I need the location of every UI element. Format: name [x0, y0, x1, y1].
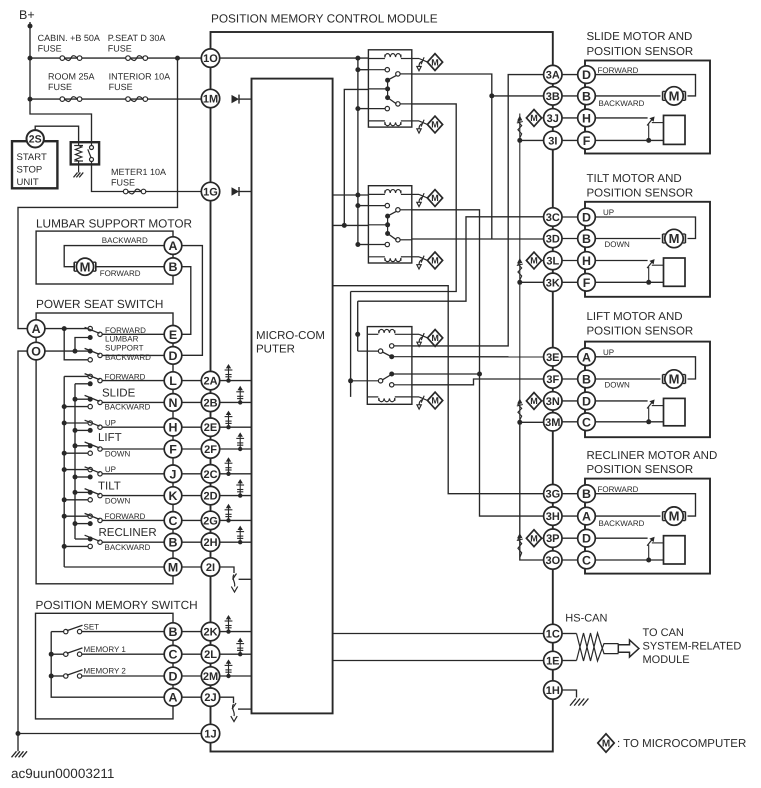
svg-text:F: F [583, 134, 591, 148]
svg-text:A: A [582, 350, 591, 364]
svg-text:3F: 3F [546, 374, 559, 386]
svg-text:2H: 2H [203, 537, 217, 549]
svg-text:RECLINER: RECLINER [99, 527, 157, 539]
svg-text:MEMORY 2: MEMORY 2 [84, 667, 127, 676]
svg-text:3M: 3M [545, 417, 560, 429]
svg-text:D: D [169, 669, 178, 683]
svg-text:A: A [582, 510, 591, 524]
svg-text:POSITION MEMORY CONTROL MODULE: POSITION MEMORY CONTROL MODULE [211, 12, 438, 26]
svg-text:BACKWARD: BACKWARD [105, 543, 151, 552]
svg-text:BACKWARD: BACKWARD [599, 519, 645, 528]
svg-text:FUSE: FUSE [48, 82, 72, 92]
svg-text:SYSTEM-RELATED: SYSTEM-RELATED [643, 641, 742, 653]
svg-text:M: M [669, 372, 680, 387]
svg-text:O: O [31, 345, 41, 359]
svg-text:POSITION SENSOR: POSITION SENSOR [587, 326, 694, 338]
svg-text:3E: 3E [546, 352, 559, 364]
svg-text:2S: 2S [29, 134, 42, 146]
svg-text:LIFT: LIFT [98, 432, 122, 444]
svg-text:FORWARD: FORWARD [105, 512, 146, 521]
svg-text:B: B [582, 232, 591, 246]
svg-text:M: M [431, 256, 439, 266]
svg-text:2L: 2L [204, 649, 217, 661]
svg-text:3D: 3D [546, 233, 560, 245]
svg-text:C: C [582, 553, 591, 567]
svg-text:D: D [582, 532, 591, 546]
svg-text:2C: 2C [203, 469, 217, 481]
svg-text:1J: 1J [204, 728, 216, 740]
svg-text:FORWARD: FORWARD [598, 66, 639, 75]
svg-text:M: M [431, 193, 439, 203]
svg-text:1M: 1M [203, 93, 218, 105]
svg-text:2G: 2G [203, 515, 218, 527]
svg-text:M: M [431, 333, 439, 343]
svg-text:P.SEAT D 30A: P.SEAT D 30A [108, 33, 166, 43]
svg-text:M: M [80, 259, 91, 274]
svg-text:M: M [669, 509, 680, 524]
svg-text:UP: UP [105, 465, 116, 474]
svg-text:J: J [170, 467, 177, 481]
svg-text:M: M [431, 57, 439, 67]
svg-text:BACKWARD: BACKWARD [105, 403, 151, 412]
svg-text:3H: 3H [546, 511, 560, 523]
svg-text:TILT MOTOR AND: TILT MOTOR AND [587, 173, 682, 185]
svg-text:H: H [169, 421, 178, 435]
svg-text:B: B [582, 89, 591, 103]
svg-text:M: M [530, 256, 538, 266]
svg-text:FUSE: FUSE [111, 178, 135, 188]
svg-text:SET: SET [84, 622, 100, 631]
svg-text:D: D [582, 210, 591, 224]
svg-text:2E: 2E [204, 422, 217, 434]
svg-text:POSITION SENSOR: POSITION SENSOR [587, 46, 694, 58]
svg-text:START: START [17, 152, 47, 163]
svg-text:1H: 1H [546, 685, 560, 697]
svg-text:DOWN: DOWN [605, 381, 631, 390]
svg-text:D: D [582, 394, 591, 408]
svg-text:B+: B+ [19, 8, 35, 22]
svg-text:M: M [168, 560, 178, 574]
svg-text:STOP: STOP [17, 165, 43, 176]
svg-text:POWER SEAT SWITCH: POWER SEAT SWITCH [36, 297, 163, 311]
svg-text:F: F [169, 442, 177, 456]
svg-text:UP: UP [105, 419, 116, 428]
svg-text:2B: 2B [203, 397, 217, 409]
svg-text:UP: UP [603, 348, 614, 357]
svg-text:3N: 3N [546, 396, 560, 408]
svg-text:MICRO-COM: MICRO-COM [256, 330, 325, 342]
svg-text:H: H [582, 254, 591, 268]
svg-text:BACKWARD: BACKWARD [105, 353, 151, 362]
svg-text:LUMBAR: LUMBAR [105, 334, 139, 343]
svg-text:DOWN: DOWN [105, 496, 131, 505]
svg-text:ROOM 25A: ROOM 25A [48, 72, 95, 82]
svg-text:TILT: TILT [98, 480, 121, 492]
svg-text:FUSE: FUSE [109, 82, 133, 92]
svg-text:FORWARD: FORWARD [105, 372, 146, 381]
svg-text:M: M [530, 113, 538, 123]
svg-text:1C: 1C [546, 628, 560, 640]
svg-text:N: N [169, 396, 178, 410]
svg-text:LIFT MOTOR AND: LIFT MOTOR AND [587, 311, 683, 323]
svg-text:FORWARD: FORWARD [598, 485, 639, 494]
svg-text:INTERIOR 10A: INTERIOR 10A [109, 72, 171, 82]
svg-text:M: M [431, 120, 439, 130]
svg-text:M: M [669, 231, 680, 246]
svg-text:C: C [169, 648, 178, 662]
svg-text:SUPPORT: SUPPORT [105, 343, 144, 352]
svg-text:E: E [169, 328, 177, 342]
svg-text:3G: 3G [545, 489, 560, 501]
svg-text:BACKWARD: BACKWARD [599, 99, 645, 108]
svg-text:3I: 3I [548, 135, 557, 147]
svg-text:K: K [169, 489, 178, 503]
svg-text:MODULE: MODULE [643, 654, 690, 666]
svg-text:MEMORY 1: MEMORY 1 [84, 645, 127, 654]
svg-text:POSITION SENSOR: POSITION SENSOR [587, 464, 694, 476]
svg-text:2M: 2M [203, 671, 218, 683]
svg-text:3L: 3L [546, 255, 559, 267]
svg-text:B: B [169, 536, 178, 550]
svg-text:SLIDE: SLIDE [102, 388, 136, 400]
svg-text:ac9uun00003211: ac9uun00003211 [11, 766, 114, 781]
svg-text:3B: 3B [546, 91, 560, 103]
svg-text:D: D [582, 68, 591, 82]
svg-text:: TO MICROCOMPUTER: : TO MICROCOMPUTER [617, 738, 746, 750]
svg-text:L: L [169, 374, 177, 388]
svg-text:M: M [530, 396, 538, 406]
svg-text:FUSE: FUSE [108, 44, 132, 54]
svg-text:RECLINER MOTOR AND: RECLINER MOTOR AND [587, 450, 718, 462]
svg-text:SLIDE MOTOR AND: SLIDE MOTOR AND [587, 31, 693, 43]
svg-text:DOWN: DOWN [105, 450, 131, 459]
svg-text:B: B [169, 260, 178, 274]
svg-text:3K: 3K [546, 277, 560, 289]
svg-text:M: M [431, 396, 439, 406]
svg-text:B: B [169, 625, 178, 639]
svg-text:C: C [582, 415, 591, 429]
svg-text:DOWN: DOWN [605, 240, 631, 249]
svg-text:HS-CAN: HS-CAN [565, 613, 607, 625]
svg-text:3C: 3C [546, 212, 560, 224]
svg-text:2K: 2K [203, 627, 217, 639]
svg-text:2J: 2J [204, 692, 216, 704]
svg-text:A: A [32, 322, 41, 336]
svg-text:1G: 1G [203, 186, 218, 198]
svg-text:D: D [169, 349, 178, 363]
svg-text:3A: 3A [546, 70, 560, 82]
svg-text:B: B [582, 372, 591, 386]
svg-text:UP: UP [603, 208, 614, 217]
svg-text:2A: 2A [203, 376, 217, 388]
svg-text:CABIN. +B 50A: CABIN. +B 50A [38, 33, 100, 43]
svg-text:A: A [169, 239, 178, 253]
svg-text:H: H [582, 111, 591, 125]
svg-text:LUMBAR SUPPORT MOTOR: LUMBAR SUPPORT MOTOR [36, 217, 192, 231]
svg-text:METER1 10A: METER1 10A [111, 167, 166, 177]
svg-text:M: M [602, 739, 610, 750]
svg-text:TO CAN: TO CAN [643, 627, 684, 639]
svg-text:M: M [530, 533, 538, 543]
svg-text:FORWARD: FORWARD [100, 269, 141, 278]
svg-text:A: A [169, 691, 178, 705]
svg-text:3O: 3O [545, 555, 560, 567]
svg-text:2F: 2F [204, 444, 217, 456]
svg-text:2D: 2D [203, 491, 217, 503]
svg-text:FUSE: FUSE [38, 44, 62, 54]
svg-text:1E: 1E [546, 655, 559, 667]
svg-text:B: B [582, 487, 591, 501]
svg-text:2I: 2I [206, 562, 215, 574]
svg-text:C: C [169, 514, 178, 528]
svg-text:1O: 1O [203, 53, 218, 65]
svg-text:POSITION MEMORY SWITCH: POSITION MEMORY SWITCH [36, 598, 198, 612]
svg-text:F: F [583, 276, 591, 290]
svg-text:BACKWARD: BACKWARD [102, 236, 148, 245]
svg-text:PUTER: PUTER [256, 344, 295, 356]
svg-text:UNIT: UNIT [17, 177, 39, 188]
svg-text:3J: 3J [547, 113, 559, 125]
svg-text:POSITION SENSOR: POSITION SENSOR [587, 188, 694, 200]
svg-text:M: M [669, 89, 680, 104]
svg-text:3P: 3P [546, 533, 559, 545]
